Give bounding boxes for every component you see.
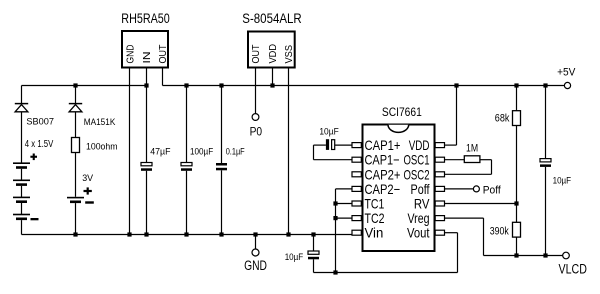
- wire RV pin to divider: [445, 203, 517, 205]
- wire top rail right segment from U1 OUT: [162, 69, 164, 86]
- battery BT2 long plate: [67, 197, 84, 199]
- wire U2 OUT pin down to P0 terminal: [255, 69, 257, 114]
- terminal Poff circle: [473, 186, 479, 192]
- pin stub RV (U3 right pin 10): [435, 201, 444, 206]
- battery BT1 cell2 short plate: [16, 183, 27, 186]
- diode SB007 cathode bar: [15, 103, 28, 105]
- svg-text:SCI7661: SCI7661: [382, 105, 422, 119]
- wire cell2-cell3: [21, 186, 23, 197]
- pin stub Vreg (U3 right pin 9): [435, 216, 444, 221]
- wire capacitor C1 branch upper: [146, 86, 148, 163]
- capacitor C5 10uF left plate: [326, 139, 329, 150]
- wire U2 VDD pin to top rail: [272, 69, 274, 86]
- wire capacitor C1 branch lower: [146, 171, 148, 235]
- svg-text:TC2: TC2: [365, 210, 385, 226]
- wire GND terminal drop: [255, 235, 257, 250]
- wire loop to OSC2: [445, 173, 492, 175]
- battery BT1 cell4 short plate: [16, 218, 27, 221]
- svg-text:Vin: Vin: [365, 225, 384, 241]
- wire capacitor C2 branch upper: [186, 86, 188, 163]
- junction tie-line / Vout return: [333, 270, 337, 274]
- wire top +5V rail: [163, 85, 565, 87]
- wire top rail left segment: [22, 85, 147, 87]
- svg-text:OUT: OUT: [157, 44, 169, 63]
- svg-text:68k: 68k: [495, 112, 510, 124]
- pin stub Vout (U3 right pin 8): [435, 230, 444, 235]
- wire CAP2- pin left: [336, 188, 353, 190]
- pin stub VDD (U3 right pin 14): [435, 143, 444, 148]
- resistor R1 100ohm body: [72, 138, 80, 153]
- wire C5 to CAP1- pin: [314, 159, 353, 161]
- resistor R3 68k body: [513, 111, 521, 126]
- junction divider / RV: [514, 201, 518, 205]
- diode MA151K triangle: [69, 105, 82, 112]
- battery BT1 plus mark: [30, 156, 37, 158]
- junction ground rail / BT2 branch: [73, 232, 77, 236]
- pin stub OSC2 (U3 right pin 12): [435, 172, 444, 177]
- svg-text:47µF: 47µF: [150, 146, 170, 157]
- capacitor C6 10uF top plate: [540, 159, 551, 162]
- svg-text:SB007: SB007: [26, 116, 54, 127]
- wire left branch upper (rail to diode D1): [21, 86, 23, 104]
- wire 68k to RV junction to 390k: [516, 126, 518, 223]
- wire capacitor C4 lower lead: [313, 259, 315, 272]
- pin stub TC2 (U3 left pin 6): [352, 216, 361, 221]
- terminal GND circle: [252, 249, 259, 256]
- wire Vout drop: [457, 233, 459, 273]
- svg-text:OUT: OUT: [250, 44, 262, 63]
- resistor R2 1M body: [464, 156, 480, 163]
- terminal +5V circle: [564, 82, 570, 88]
- terminal VLCD circle: [563, 252, 570, 259]
- junction top rail / C2: [184, 83, 188, 87]
- pin stub CAP1+ (U3 left pin 1): [352, 143, 361, 148]
- wire cell3-cell4: [21, 203, 23, 214]
- svg-text:P0: P0: [250, 124, 263, 138]
- wire diode D2 to resistor R1: [75, 112, 77, 138]
- junction top rail / VDD riser: [454, 83, 458, 87]
- wire diode D1 to battery BT1: [21, 112, 23, 163]
- capacitor C1 47uF top plate: [141, 163, 152, 166]
- junction tie-line / TC2: [333, 216, 337, 220]
- wire battery BT2 to ground rail: [75, 203, 77, 234]
- junction top rail / C6: [543, 83, 547, 87]
- capacitor C4 10uF bottom plate: [308, 257, 319, 260]
- wire 390k lower lead: [516, 237, 518, 255]
- wire ground rail: [22, 234, 353, 236]
- pin stub Poff (U3 right pin 11): [435, 186, 444, 191]
- svg-text:OSC2: OSC2: [404, 166, 430, 182]
- wire CAP1+ to capacitor C5: [335, 144, 352, 146]
- svg-text:0.1µF: 0.1µF: [226, 147, 245, 158]
- U3 notch: [388, 125, 409, 133]
- wire VLCD output line: [484, 255, 563, 257]
- svg-text:100ohm: 100ohm: [86, 141, 118, 152]
- svg-text:S-8054ALR: S-8054ALR: [242, 11, 302, 26]
- svg-text:CAP1−: CAP1−: [365, 152, 400, 168]
- svg-text:3V: 3V: [82, 173, 94, 184]
- junction top rail / U2 VDD: [270, 83, 274, 87]
- capacitor C5 10uF right plate: [332, 140, 335, 150]
- junction ground rail / GND terminal: [253, 232, 257, 236]
- junction ground rail / C1: [144, 232, 148, 236]
- wire U1 GND pin down to ground rail: [129, 69, 131, 235]
- junction top rail / C3: [219, 83, 223, 87]
- svg-text:Vout: Vout: [407, 225, 430, 241]
- pin stub OSC1 (U3 right pin 13): [435, 157, 444, 162]
- wire capacitor C4 upper lead: [313, 235, 315, 252]
- capacitor C6 10uF bottom plate: [540, 164, 551, 167]
- svg-text:GND: GND: [124, 44, 136, 63]
- wire capacitor C2 branch lower: [186, 171, 188, 235]
- battery BT1 minus mark: [31, 218, 39, 220]
- capacitor C3 0.1uF bottom plate: [216, 168, 227, 171]
- wire Vout pin right: [445, 232, 458, 234]
- wire VDD riser horizontal: [445, 144, 457, 146]
- battery BT1 cell1 short plate: [16, 166, 27, 169]
- wire TC2 pin left: [336, 217, 353, 219]
- svg-text:OSC1: OSC1: [404, 152, 430, 168]
- battery BT1 cell1 long plate: [13, 162, 30, 164]
- battery BT2 minus mark: [85, 201, 94, 203]
- wire capacitor C6 lower lead: [545, 167, 547, 256]
- wire Vreg drop to VLCD line: [483, 218, 485, 255]
- wire 68k upper lead: [516, 86, 518, 111]
- pin stub CAP2+ (U3 left pin 3): [352, 172, 361, 177]
- junction top rail / D2 branch: [73, 83, 77, 87]
- svg-text:10µF: 10µF: [553, 175, 572, 186]
- svg-text:VSS: VSS: [283, 45, 295, 64]
- battery BT1 cell3 long plate: [13, 197, 30, 199]
- junction ground rail / C2: [184, 232, 188, 236]
- svg-text:390k: 390k: [490, 226, 509, 238]
- wire tie-line vertical: [335, 189, 337, 273]
- wire OSC1 to resistor R2: [445, 159, 465, 161]
- wire cell1-cell2: [21, 169, 23, 180]
- capacitor C1 47uF bottom plate: [141, 168, 152, 171]
- battery BT1 cell3 short plate: [16, 200, 27, 203]
- svg-text:RV: RV: [414, 196, 430, 212]
- svg-text:Poff: Poff: [411, 181, 430, 197]
- svg-text:100µF: 100µF: [190, 146, 213, 157]
- junction ground rail / C4 / Vin: [311, 232, 315, 236]
- wire resistor R1 to battery BT2: [75, 153, 77, 197]
- wire capacitor C5 left lead: [314, 144, 326, 146]
- wire U1 IN pin to top rail: [146, 69, 148, 86]
- capacitor C2 100uF top plate: [181, 163, 192, 166]
- capacitor C3 0.1uF top plate: [216, 163, 227, 166]
- wire MA151K branch upper (rail to diode D2): [75, 86, 77, 104]
- svg-text:GND: GND: [244, 258, 267, 273]
- pin stub TC1 (U3 left pin 5): [352, 201, 361, 206]
- resistor R4 390k body: [513, 222, 521, 237]
- junction top rail / 68k: [514, 83, 518, 87]
- svg-text:CAP2−: CAP2−: [365, 181, 401, 197]
- svg-text:Poff: Poff: [483, 184, 502, 196]
- wire R2 right lead: [480, 159, 492, 161]
- pin stub Vin (U3 left pin 7): [352, 230, 361, 235]
- junction tie-line / TC1: [333, 201, 337, 205]
- wire C5 down leg: [313, 145, 315, 160]
- junction ground rail / U1 GND: [127, 232, 131, 236]
- wire battery BT1 to ground rail: [21, 220, 23, 234]
- svg-text:+5V: +5V: [557, 66, 576, 78]
- wire U2 VSS pin down to ground rail: [288, 69, 290, 235]
- svg-text:10µF: 10µF: [285, 252, 304, 263]
- svg-text:4 x 1.5V: 4 x 1.5V: [25, 139, 54, 150]
- capacitor C4 10uF top plate: [308, 251, 319, 254]
- junction ground rail / C3: [219, 232, 223, 236]
- wire capacitor C6 upper lead: [545, 86, 547, 159]
- diode MA151K cathode bar: [69, 103, 82, 105]
- svg-text:VDD: VDD: [267, 44, 279, 64]
- pin stub CAP2− (U3 left pin 4): [352, 186, 361, 191]
- capacitor C2 100uF bottom plate: [181, 168, 192, 171]
- svg-text:Vreg: Vreg: [408, 210, 430, 226]
- wire TC1 pin left: [336, 203, 353, 205]
- wire VDD riser vertical to top rail: [456, 86, 458, 146]
- junction ground rail / U2 VSS: [286, 232, 290, 236]
- wire Poff pin to terminal: [445, 188, 474, 190]
- svg-text:RH5RA50: RH5RA50: [121, 11, 170, 26]
- battery BT1 cell4 long plate: [13, 214, 30, 216]
- wire Vreg pin right: [445, 217, 484, 219]
- battery BT1 cell2 long plate: [13, 180, 30, 182]
- terminal P0 circle: [252, 114, 259, 121]
- junction VLCD line / C6: [543, 253, 547, 257]
- svg-text:VDD: VDD: [409, 137, 430, 153]
- battery BT2 plus mark: [84, 190, 92, 192]
- battery BT2 short plate: [70, 201, 81, 204]
- wire Vout return bottom: [314, 272, 458, 274]
- wire capacitor C3 branch lower: [221, 170, 223, 234]
- svg-text:VLCD: VLCD: [559, 261, 588, 276]
- svg-text:MA151K: MA151K: [84, 117, 116, 128]
- op-amp U1 RH5RA50 box: [122, 31, 168, 68]
- svg-text:1M: 1M: [466, 143, 478, 155]
- svg-text:TC1: TC1: [365, 196, 385, 212]
- junction VLCD line / 390k: [514, 253, 518, 257]
- svg-text:CAP1+: CAP1+: [365, 137, 401, 153]
- svg-text:IN: IN: [141, 52, 153, 64]
- svg-text:CAP2+: CAP2+: [365, 166, 401, 182]
- wire R2 loop vertical: [491, 160, 493, 175]
- pin stub CAP1− (U3 left pin 2): [352, 157, 361, 162]
- svg-text:10µF: 10µF: [319, 126, 338, 137]
- junction top rail / IN / C1 branch: [144, 83, 148, 87]
- wire capacitor C3 branch upper: [221, 86, 223, 164]
- diode SB007 triangle: [15, 105, 28, 112]
- op-amp U2 S-8054ALR box: [248, 32, 295, 68]
- op-amp U3 SCI7661 box: [363, 125, 435, 252]
